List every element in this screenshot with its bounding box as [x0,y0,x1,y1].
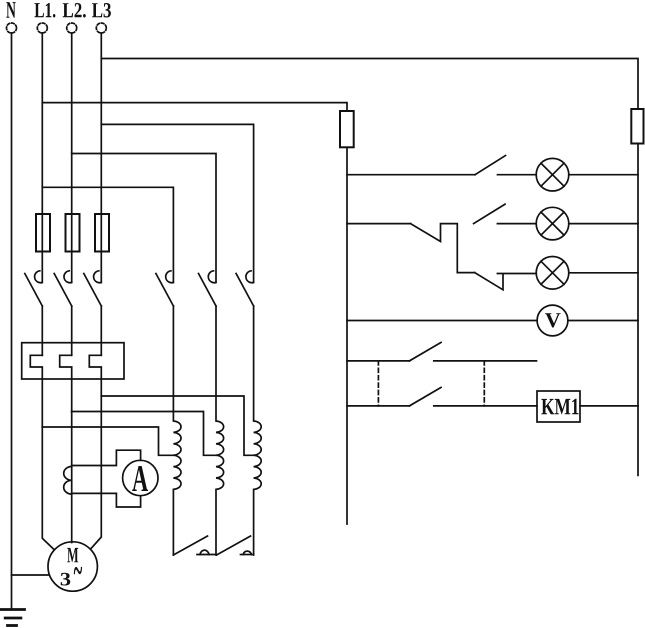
row3 right wire to lamp [497,273,536,275]
wire phase3 down to motor [91,396,101,549]
row3 wire lamp to right rail [569,272,638,274]
wire QS1 pole1 to overload [41,306,43,355]
switch QS2 pole 1 hook [166,271,174,283]
transfer switch SA blade 1 [173,536,207,555]
fuse FU1 [36,214,50,252]
overload relay FR box [22,343,124,379]
switch QS1 pole 1 hook [35,271,43,283]
fuse FU4 (left control) [340,111,354,147]
terminal N [7,23,17,33]
selector step down [411,224,475,273]
heater element 2 [60,355,72,411]
heater element 1 [30,355,42,427]
switch QS2 pole 2 hook [208,271,216,283]
switch QS1 pole 2 hook [64,271,72,283]
row2 right wire to lamp [497,223,536,225]
switch QS2 pole 3 hook [246,271,254,283]
fuse FU2 [66,214,80,252]
switch QS1 pole 3 blade [84,274,102,307]
voltmeter V [537,305,568,336]
row2 contact blade [474,204,505,223]
mechanical link dashed right [483,361,485,406]
row1 left wire [347,174,475,176]
wire N vertical [11,33,13,610]
row6 left wire [347,405,409,407]
terminal L2 [67,23,77,33]
label L1. [35,3,56,18]
mechanical link dashed left [377,361,379,406]
motor M circle [48,542,97,591]
switch QS2 pole 1 blade [156,274,174,307]
transfer switch SA blade 2 [217,536,251,555]
row2 left wire [347,223,411,225]
wire QS1 pole2 to overload [71,306,73,355]
row3 contact blade [475,273,503,290]
wire phase2 down to motor [71,412,73,543]
wire N to motor [12,574,50,576]
row1 contact blade [475,156,506,175]
motor digit 3 [61,573,71,586]
wire L2 vertical [71,33,73,214]
switch QS1 pole 3 hook [94,271,102,283]
wire phase1 down to motor [42,427,53,549]
wire phase2 tap to CT2 [72,412,216,456]
motor tilde [74,567,82,574]
wire QS1 pole3 to overload [100,306,102,355]
ammeter loop top wire [72,450,141,465]
ammeter loop bottom wire [72,493,141,507]
transfer switch SA hook 2 stub [241,554,254,556]
wire L1 branch to left rail [42,103,347,111]
row2 wire lamp to right rail [569,223,638,225]
label L2. [63,3,86,18]
fuse FU3 [95,214,109,252]
wire through FU1 [41,214,43,282]
wire L1 vertical [41,33,43,214]
label N [6,2,15,18]
transfer switch SA hook 1 [200,550,209,554]
transfer switch SA hook 2 [243,551,252,554]
wire L2 branch to middle switch pole 2 [72,154,216,282]
lamp HL2 [536,207,569,240]
wire L3 vertical [100,33,102,214]
row5 right wire [434,360,537,362]
switch QS2 pole 3 blade [236,274,254,307]
label L3 [92,3,111,18]
lamp HL1 [536,158,569,191]
wire L3 branch to right rail [101,59,638,110]
switch QS1 pole 2 blade [54,274,71,307]
CT secondary winding at ammeter [64,467,72,495]
KM1 label [541,399,578,414]
wire phase1 tap to CT1 [42,427,173,455]
row4 wire to right rail [568,320,638,322]
wire through FU3 [100,214,102,282]
terminal L3 [96,23,106,33]
row1 right wire to lamp [498,174,537,176]
CT1 winding [173,306,181,555]
switch QS1 pole 1 blade [25,274,43,307]
ammeter A letter [132,466,148,491]
ground [1,610,25,626]
terminal L1 [37,23,47,33]
motor letter M [67,548,78,562]
wire left rail [346,147,348,524]
wire phase3 tap to CT3 [101,396,253,455]
fuse FU5 (right control) [631,109,643,144]
wire right rail [637,144,639,476]
contactor coil KM1 box [537,391,580,422]
row4 wire to voltmeter [347,320,537,322]
row6 wire to KM1 [434,405,537,407]
switch QS2 pole 2 blade [199,274,217,307]
row5 contact blade [409,342,441,361]
wire through FU2 [71,214,73,282]
row6 wire KM1 to right rail [580,405,638,407]
CT3 winding [254,306,262,555]
row5 left wire [347,360,409,362]
ammeter A circle [123,460,158,495]
lamp HL3 [536,257,569,290]
row1 wire lamp to right rail [569,174,638,176]
CT2 winding [216,306,224,555]
wire L1 branch to middle switch pole 1 [42,187,173,281]
wire L3 branch to middle switch pole 3 [101,124,253,281]
transfer switch SA hook 1 stub [197,554,216,556]
heater element 3 [89,355,101,396]
row6 contact blade [409,387,441,406]
